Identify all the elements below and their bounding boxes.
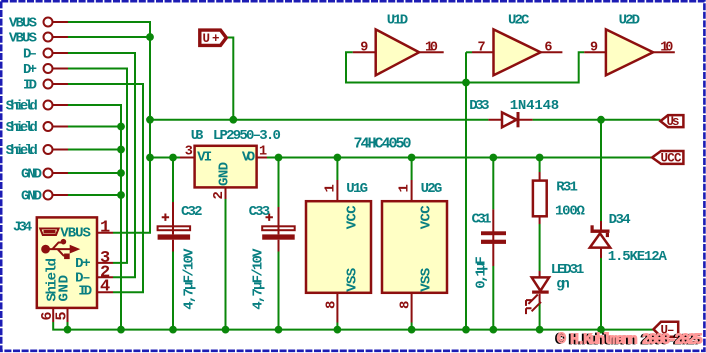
svg-text:1N4148: 1N4148	[510, 98, 560, 114]
svg-text:VBUS: VBUS	[9, 16, 37, 32]
svg-text:4,7µF/10V: 4,7µF/10V	[181, 248, 197, 310]
svg-text:9: 9	[590, 41, 598, 56]
svg-text:D34: D34	[609, 212, 631, 228]
svg-text:100Ω: 100Ω	[555, 203, 585, 219]
svg-text:74HC4050: 74HC4050	[354, 136, 412, 153]
svg-text:U3: U3	[191, 128, 204, 144]
svg-text:Us: Us	[667, 115, 680, 129]
svg-text:Shield: Shield	[6, 120, 38, 136]
svg-text:VO: VO	[242, 150, 255, 166]
svg-text:U2D: U2D	[619, 12, 640, 28]
svg-text:GND: GND	[21, 189, 42, 205]
svg-text:R31: R31	[556, 180, 578, 196]
svg-text:GND: GND	[56, 275, 72, 302]
svg-text:8: 8	[398, 301, 414, 309]
svg-text:1.5KE12A: 1.5KE12A	[608, 249, 668, 265]
svg-text:10: 10	[660, 41, 673, 56]
svg-text:ID: ID	[78, 283, 92, 299]
svg-text:Shield: Shield	[6, 143, 38, 159]
svg-text:ID: ID	[23, 78, 37, 94]
svg-text:GND: GND	[217, 162, 233, 186]
svg-text:U2G: U2G	[421, 181, 443, 197]
svg-text:C32: C32	[181, 204, 203, 220]
svg-text:4: 4	[100, 277, 110, 296]
svg-text:gn: gn	[556, 276, 570, 292]
svg-text:VCC: VCC	[419, 205, 435, 229]
svg-text:VBUS: VBUS	[9, 31, 37, 47]
svg-text:GND: GND	[21, 167, 42, 183]
svg-text:1: 1	[323, 184, 339, 192]
svg-text:1: 1	[100, 219, 110, 238]
svg-text:U1D: U1D	[387, 12, 408, 28]
svg-text:VSS: VSS	[345, 268, 361, 292]
svg-text:LP2950–3.0: LP2950–3.0	[213, 128, 281, 144]
svg-text:1: 1	[397, 184, 413, 192]
svg-text:2: 2	[211, 191, 227, 199]
svg-text:7: 7	[478, 41, 486, 56]
svg-text:UCC: UCC	[661, 152, 682, 166]
svg-text:1: 1	[259, 145, 267, 160]
svg-text:D+: D+	[23, 62, 37, 78]
svg-text:6: 6	[544, 41, 552, 56]
svg-text:U+: U+	[203, 32, 220, 46]
svg-text:C31: C31	[472, 212, 492, 228]
svg-text:VI: VI	[197, 150, 212, 166]
svg-text:VBUS: VBUS	[60, 226, 91, 242]
svg-text:J34: J34	[13, 219, 32, 235]
svg-text:8: 8	[324, 301, 340, 309]
svg-text:Shield: Shield	[6, 99, 38, 115]
svg-text:3: 3	[185, 145, 193, 160]
svg-text:D–: D–	[23, 47, 37, 63]
svg-text:5: 5	[54, 311, 71, 320]
svg-text:D33: D33	[469, 98, 489, 114]
svg-text:10: 10	[425, 41, 438, 56]
svg-text:9: 9	[360, 41, 368, 56]
svg-text:© H.Kuhlmann 2008-2025: © H.Kuhlmann 2008-2025	[557, 331, 703, 348]
svg-text:VCC: VCC	[345, 205, 361, 229]
svg-text:C33: C33	[249, 204, 271, 220]
svg-text:VSS: VSS	[419, 268, 435, 292]
svg-text:U2C: U2C	[508, 12, 530, 28]
svg-text:U1G: U1G	[346, 181, 368, 197]
svg-text:4,7µF/10V: 4,7µF/10V	[251, 248, 267, 310]
svg-text:0,1µF: 0,1µF	[473, 256, 489, 289]
